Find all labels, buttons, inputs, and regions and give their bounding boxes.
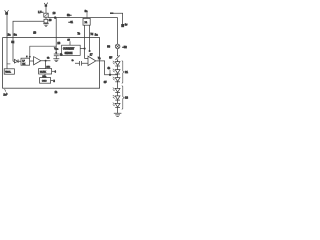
- svg-text:18: 18: [57, 42, 60, 45]
- capacitor C2: [54, 54, 59, 59]
- LED rail top: [117, 18, 119, 44]
- wire node-2 corner to LF cluster: [13, 21, 44, 61]
- wire amp out: [41, 61, 51, 69]
- wire rx to amp: [30, 60, 34, 62]
- svg-text:7d: 7d: [90, 33, 93, 36]
- battery B1: [121, 24, 124, 27]
- svg-text:21: 21: [125, 70, 128, 74]
- svg-text:X1: X1: [85, 22, 88, 24]
- svg-text:OSC: OSC: [42, 81, 47, 83]
- wire: [117, 60, 119, 62]
- capacitor C3: [80, 61, 82, 66]
- diode D7: [13, 59, 21, 63]
- antenna ANT1: [5, 10, 9, 15]
- block BLINK: [39, 69, 52, 74]
- svg-text:8a: 8a: [85, 10, 88, 13]
- ground: [43, 24, 49, 27]
- svg-text:9b: 9b: [47, 58, 50, 60]
- wire Vua to RX block with arrow: [29, 46, 56, 58]
- LED D2: [113, 69, 120, 74]
- wire CS to xtal node: [80, 48, 84, 50]
- svg-text:56: 56: [107, 46, 110, 49]
- main wire top rail: [48, 17, 117, 19]
- svg-text:7b: 7b: [77, 32, 80, 35]
- svg-text:~41: ~41: [69, 20, 74, 24]
- wire to ground: [117, 108, 119, 114]
- switch SW1: [115, 55, 119, 61]
- node dot: [84, 48, 86, 50]
- svg-text:5F: 5F: [109, 57, 112, 60]
- svg-text:Vua: Vua: [54, 48, 59, 51]
- svg-text:5: 5: [53, 79, 55, 83]
- svg-text:40: 40: [49, 20, 52, 22]
- svg-text:~52: ~52: [122, 45, 127, 49]
- svg-text:1b: 1b: [55, 91, 58, 94]
- LED D6: [113, 103, 120, 108]
- IC U1 box: [3, 38, 100, 89]
- LED D4: [113, 88, 120, 93]
- wire: [117, 49, 119, 56]
- svg-text:1B: 1B: [33, 32, 36, 35]
- node dot: [89, 50, 91, 52]
- block WAKE: [4, 69, 14, 74]
- wire xtal pin left down: [85, 25, 88, 58]
- svg-text:SENSE: SENSE: [65, 53, 73, 55]
- svg-text:2ab: 2ab: [3, 92, 8, 96]
- label 4b leader: [109, 70, 111, 75]
- svg-text:17: 17: [90, 53, 93, 56]
- LED D5: [113, 95, 120, 100]
- op-amp U2: [34, 57, 41, 65]
- svg-text:16: 16: [53, 12, 56, 15]
- current sense pin: [69, 41, 71, 45]
- svg-text:9v: 9v: [125, 23, 128, 26]
- wire tick: [7, 63, 11, 65]
- node dot: [109, 74, 111, 76]
- battery wire: [110, 13, 123, 24]
- wire blink to osc: [44, 74, 46, 78]
- LED D3: [113, 77, 120, 82]
- label 2a bottom: [5, 89, 6, 92]
- svg-text:6F: 6F: [104, 81, 107, 84]
- svg-text:8b~: 8b~: [67, 13, 72, 17]
- svg-text:10b: 10b: [46, 66, 50, 68]
- coil L1: [44, 13, 48, 17]
- svg-text:VMOL: VMOL: [5, 72, 12, 74]
- svg-text:23: 23: [125, 95, 128, 99]
- lamp 56: [115, 44, 120, 49]
- svg-text:LF~: LF~: [38, 10, 44, 14]
- capacitor C1: [44, 17, 48, 24]
- wire op-amp out to LED rail: [96, 61, 118, 75]
- svg-text:7a: 7a: [98, 57, 101, 60]
- wire xtal pin right down: [89, 25, 91, 51]
- svg-text:3a: 3a: [14, 33, 17, 37]
- svg-text:a-: a-: [72, 59, 74, 62]
- wire node A down: [55, 18, 57, 54]
- wire osc pin: [51, 79, 53, 81]
- input wire lower: [75, 62, 88, 64]
- ground: [114, 113, 122, 116]
- wire antenna down to wake box: [6, 15, 8, 69]
- brace group 22: [122, 61, 129, 84]
- ground: [53, 59, 59, 62]
- svg-text:4b: 4b: [107, 67, 110, 70]
- svg-text:LF: LF: [22, 60, 25, 62]
- block CURRENT SENSE: [62, 45, 81, 55]
- op-amp U3: [88, 56, 96, 65]
- svg-text:4: 4: [54, 70, 56, 74]
- node 10 leader: [44, 3, 48, 14]
- block OSC: [40, 78, 51, 84]
- wire blink pin: [52, 70, 54, 72]
- svg-text:1a: 1a: [95, 32, 99, 36]
- svg-text:BLINK: BLINK: [40, 72, 47, 74]
- svg-text:CURRENT: CURRENT: [63, 49, 75, 51]
- svg-text:z: z: [26, 56, 27, 58]
- block LF RX: [21, 58, 30, 65]
- crystal Y1: [83, 18, 90, 25]
- svg-text:2a: 2a: [8, 33, 11, 37]
- LED D1: [113, 61, 120, 66]
- node dot: [45, 60, 47, 62]
- svg-text:5d: 5d: [11, 41, 14, 44]
- brace group 23: [122, 86, 129, 110]
- junction node A: [54, 16, 57, 19]
